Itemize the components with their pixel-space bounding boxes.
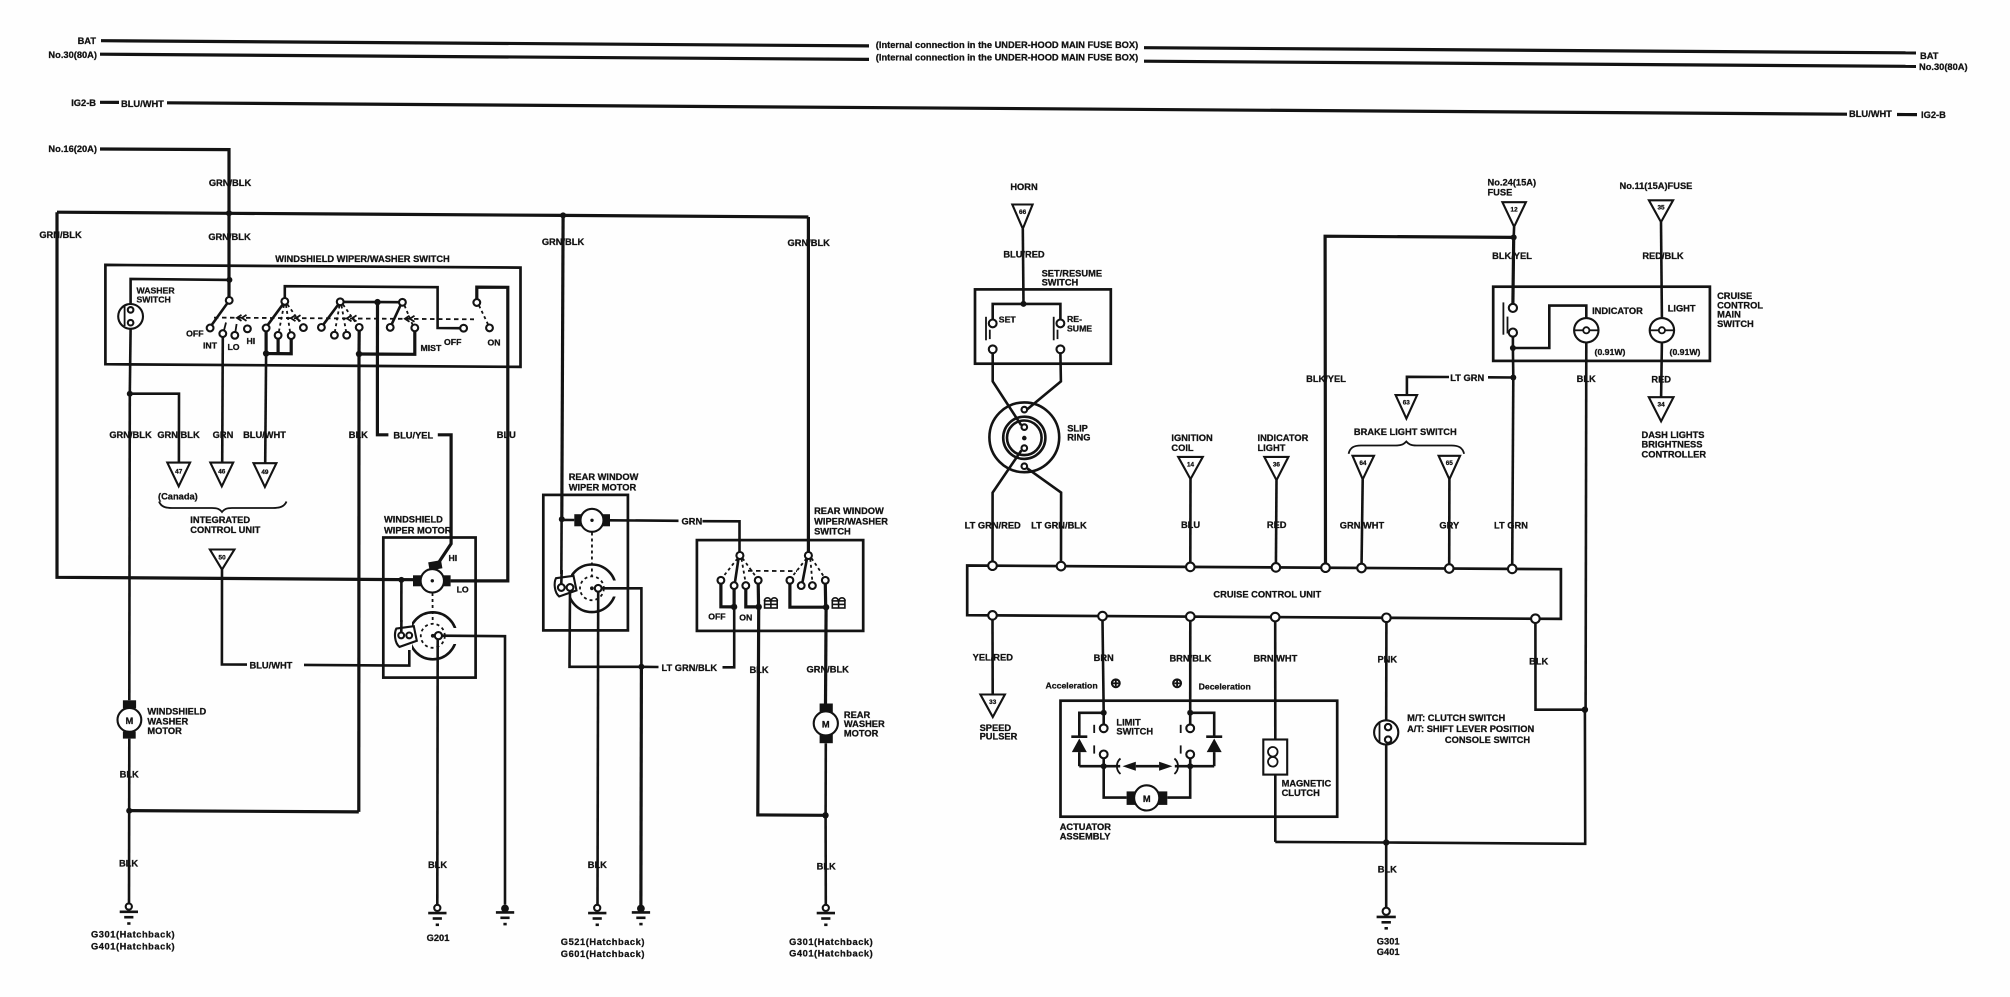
svg-text:RED: RED: [1267, 520, 1287, 530]
wire BLU/WHT to park contact: [304, 638, 409, 665]
node junction lower bus left: [1101, 763, 1107, 769]
SW4 dashed arm: [405, 306, 413, 325]
brace integrated control unit: [159, 502, 287, 513]
svg-text:M: M: [822, 720, 830, 730]
svg-text:GRN/BLK: GRN/BLK: [209, 178, 252, 188]
svg-text:Deceleration: Deceleration: [1199, 682, 1251, 692]
connector 33: [980, 695, 1005, 718]
svg-text:BLK: BLK: [119, 859, 138, 869]
wire clutch switch to BLK bus: [1385, 745, 1388, 843]
svg-text:LT GRN/BLK: LT GRN/BLK: [1031, 521, 1087, 531]
rear washer motor brush bottom: [820, 734, 833, 743]
limit switch R contact top: [1186, 724, 1194, 732]
node junction BLK bus: [356, 351, 362, 357]
terminal bottom 1: [988, 611, 997, 620]
wire GRN/BLK drop to rear motor: [562, 215, 563, 519]
SW4 contact: [387, 324, 394, 331]
svg-text:LIGHT: LIGHT: [1258, 443, 1286, 453]
wire rear washer motor ground lead: [824, 743, 827, 815]
main switch contact top: [1509, 304, 1517, 312]
svg-text:BAT: BAT: [1920, 51, 1939, 61]
wire BRN/WHT: [1274, 621, 1277, 739]
wire BLK bus to clutch: [1275, 841, 1386, 844]
SW3 contact 3: [343, 332, 350, 339]
SW3 contact 4: [356, 324, 363, 331]
connector 47: [167, 463, 190, 487]
svg-text:BLU/WHT: BLU/WHT: [121, 99, 164, 109]
rear motor shaft dashed: [591, 533, 593, 577]
limit switch L contact bottom: [1100, 751, 1108, 759]
svg-text:MOTOR: MOTOR: [147, 726, 182, 736]
svg-text:12: 12: [1511, 207, 1519, 214]
wire RED indicator light: [1275, 480, 1278, 567]
node junction BLU/WHT tap: [263, 350, 269, 356]
svg-text:INTEGRATED: INTEGRATED: [190, 515, 250, 525]
rear wiper SW arm: [735, 559, 739, 583]
svg-text:35: 35: [1657, 205, 1665, 212]
chevron arrows on gang line: [237, 315, 415, 322]
wire SET output: [993, 353, 1022, 425]
label BLU/YEL wire: [377, 366, 388, 435]
svg-text:BRN: BRN: [1094, 653, 1114, 663]
svg-text:BLU/WHT: BLU/WHT: [1849, 109, 1892, 119]
actuator motor brush right: [1156, 791, 1167, 805]
wire armature to G201: [436, 639, 439, 905]
SW2 contact 3: [288, 332, 295, 339]
svg-text:MOTOR: MOTOR: [844, 729, 879, 739]
svg-text:LO: LO: [227, 342, 239, 352]
svg-text:G201: G201: [427, 933, 450, 943]
icon polarity acceleration: [1112, 679, 1120, 687]
svg-text:DASH LIGHTS: DASH LIGHTS: [1642, 430, 1705, 440]
SET switch contact bottom: [989, 345, 997, 353]
wire GRN/BLK far-left drop: [57, 212, 413, 580]
svg-text:REAR WINDOW: REAR WINDOW: [814, 506, 884, 516]
svg-text:SWITCH: SWITCH: [137, 295, 171, 305]
svg-text:LT GRN/RED: LT GRN/RED: [965, 521, 1021, 531]
rear motor brush right: [602, 514, 610, 526]
actuator motor brush left: [1127, 791, 1138, 805]
wire No.16 fuse feed: [100, 149, 229, 213]
wire armature out right: [602, 588, 642, 667]
SW4 arm: [392, 305, 401, 325]
svg-text:RED: RED: [1651, 375, 1671, 385]
ground G301 right: [1377, 908, 1396, 929]
clutch switch plunger: [1379, 723, 1381, 743]
svg-text:GRN/BLK: GRN/BLK: [157, 430, 200, 440]
rear wiper SW dashed fan: [723, 558, 757, 582]
wire GRN/BLK drop to rear switch: [807, 217, 810, 552]
node junction BLK bus left: [126, 808, 132, 814]
svg-text:CRUISE CONTROL UNIT: CRUISE CONTROL UNIT: [1213, 590, 1321, 600]
svg-text:CONSOLE SWITCH: CONSOLE SWITCH: [1445, 735, 1531, 745]
limit switch L plunger dashes: [1093, 725, 1095, 754]
svg-text:BAT: BAT: [78, 36, 97, 46]
terminal bottom 5: [1382, 614, 1391, 623]
svg-text:HI: HI: [247, 336, 256, 346]
wire IG2-B tie right: [1897, 113, 1917, 116]
wire main switch to LT GRN node: [1512, 348, 1515, 378]
svg-text:IG2-B: IG2-B: [1921, 110, 1946, 120]
RESUME plunger: [1053, 317, 1055, 341]
wire branch to connector 47: [130, 394, 179, 463]
connector 34: [1649, 397, 1674, 421]
diode D2: [1206, 735, 1222, 738]
motor M windshield wiper: [421, 569, 444, 592]
wire ON loop rear wiper: [746, 589, 759, 607]
wire washer switch output: [129, 329, 132, 394]
svg-text:CONTROL UNIT: CONTROL UNIT: [190, 525, 260, 535]
svg-text:A/T: SHIFT LEVER POSITION: A/T: SHIFT LEVER POSITION: [1407, 724, 1534, 734]
svg-text:REAR WINDOW: REAR WINDOW: [569, 472, 639, 482]
ground G301 mid: [817, 905, 835, 925]
slip ring contact upper-mid: [1022, 424, 1028, 430]
svg-text:BLU/RED: BLU/RED: [1003, 250, 1045, 260]
terminal top 6: [1357, 564, 1366, 573]
wire BLU/YEL to HI brush: [438, 435, 451, 564]
icon polarity deceleration: [1173, 679, 1181, 687]
wire GRN/BLK drop to wiper switch: [227, 213, 230, 297]
node junction rear wiper OFF: [731, 604, 737, 610]
brace brake light switch: [1349, 442, 1465, 454]
svg-text:M: M: [126, 716, 134, 726]
svg-text:IGNITION: IGNITION: [1171, 433, 1213, 443]
rear washer contact 2: [798, 582, 805, 589]
wire IG2-B tie left: [100, 101, 119, 104]
SW3 contact 2: [331, 332, 338, 339]
wire PNK: [1385, 622, 1388, 720]
wire RESUME output: [1027, 353, 1061, 409]
node junction horn feed: [1021, 301, 1027, 307]
motor M rear wiper: [581, 509, 604, 532]
wire MIST link bus: [359, 331, 415, 354]
svg-text:BLK/YEL: BLK/YEL: [1492, 251, 1532, 261]
svg-text:BRAKE LIGHT SWITCH: BRAKE LIGHT SWITCH: [1354, 427, 1457, 437]
svg-text:WIPER/WASHER: WIPER/WASHER: [814, 517, 888, 527]
park contact A: [398, 633, 404, 639]
svg-text:66: 66: [1019, 209, 1027, 216]
clutch switch contact top: [1385, 724, 1391, 730]
contact MIST: [411, 325, 418, 332]
node junction LT GRN/BLK tee: [638, 664, 644, 670]
limit switch L contact top: [1100, 724, 1108, 732]
svg-text:RING: RING: [1067, 433, 1090, 443]
contact HI: [244, 325, 251, 332]
ground G201: [428, 905, 446, 925]
wire LT GRN/BLK to rear switch: [723, 610, 735, 667]
svg-text:M: M: [1143, 794, 1151, 804]
slip ring rings: [1003, 417, 1045, 459]
connector 36: [1264, 457, 1288, 480]
svg-text:BLK: BLK: [749, 665, 768, 675]
wire BRN: [1103, 620, 1104, 712]
connector 12 fuse: [1502, 202, 1526, 227]
park switch plate rear: [555, 576, 577, 597]
svg-text:Acceleration: Acceleration: [1046, 680, 1098, 690]
diode D1: [1071, 735, 1087, 738]
terminal top 4: [1272, 563, 1281, 572]
terminal top 5: [1321, 563, 1330, 572]
diode D4 right-pointing: [1159, 762, 1172, 771]
svg-text:No.30(80A): No.30(80A): [48, 50, 97, 60]
wire GRN/BLK drop to rear washer motor: [824, 607, 828, 703]
wire LT GRN/BLK lead: [641, 665, 658, 668]
terminal bottom 3: [1186, 612, 1195, 621]
motor shaft dashed: [432, 593, 434, 624]
wire BLK/YEL branch left: [1325, 236, 1514, 569]
limit switch R contact bottom: [1186, 751, 1194, 759]
wiper switch SW4 pivot: [399, 299, 406, 306]
svg-text:47: 47: [175, 469, 183, 476]
node junction GRN/BLK at switch: [226, 210, 232, 216]
terminal top 8: [1508, 565, 1517, 574]
svg-text:LIGHT: LIGHT: [1668, 304, 1696, 314]
wire BLK down from switch: [357, 354, 360, 812]
ON/OFF switch pivot: [473, 299, 480, 306]
terminal bottom 2: [1098, 612, 1107, 621]
armature rear wiper: [568, 565, 616, 613]
node junction fuse 12: [1511, 234, 1517, 240]
wiper switch SW1 pivot: [226, 297, 233, 304]
svg-text:BLU/WHT: BLU/WHT: [243, 430, 286, 440]
svg-text:33: 33: [989, 699, 997, 706]
wiper switch SW1 arm: [212, 303, 228, 325]
contact INT: [219, 330, 226, 337]
armature pickup: [435, 632, 442, 639]
armature commutator dashed: [421, 624, 445, 648]
box set/resume switch: [975, 289, 1111, 363]
svg-text:GRN/BLK: GRN/BLK: [807, 665, 850, 675]
terminal bottom 6: [1531, 614, 1540, 623]
wiper switch SW3 pivot: [337, 298, 344, 305]
svg-text:BLK: BLK: [817, 862, 836, 872]
node junction rear motor brush: [559, 516, 565, 522]
svg-text:GRN/WHT: GRN/WHT: [1340, 520, 1385, 530]
terminal top 2: [1057, 562, 1066, 571]
armature windshield wiper: [409, 612, 456, 659]
svg-text:INDICATOR: INDICATOR: [1258, 433, 1309, 443]
terminal bottom 4: [1271, 613, 1280, 622]
wire LT GRN drop to unit: [1512, 378, 1513, 569]
icon washer jet 2: [832, 598, 845, 608]
node junction BLK right: [1582, 707, 1588, 713]
svg-text:LT GRN: LT GRN: [1494, 520, 1528, 530]
svg-text:(Canada): (Canada): [158, 492, 198, 502]
armature pickup rear: [595, 585, 602, 592]
svg-text:65: 65: [1446, 460, 1454, 467]
wire slip ring to LT GRN/RED: [993, 450, 1022, 566]
node junction rear wiper ON: [756, 604, 762, 610]
svg-text:BLU: BLU: [497, 430, 516, 440]
washer switch contact top: [128, 307, 134, 313]
wire washer loop rear: [790, 584, 826, 608]
svg-text:G301: G301: [1377, 937, 1400, 947]
svg-text:34: 34: [1658, 402, 1666, 409]
main switch plunger: [1502, 302, 1504, 334]
svg-text:BLK: BLK: [588, 860, 607, 870]
wire BLK drop from HI contact: [357, 331, 360, 354]
svg-text:G521(Hatchback): G521(Hatchback): [561, 937, 645, 947]
connector 46: [210, 463, 233, 487]
svg-text:RED/BLK: RED/BLK: [1642, 251, 1684, 261]
svg-text:BLK/YEL: BLK/YEL: [1306, 374, 1346, 384]
wire BLK drop rear switch: [758, 607, 826, 815]
wire GRN drop to connector 46: [221, 337, 224, 463]
wire BLK/YEL to main switch: [1511, 237, 1515, 303]
node junction main switch out: [1510, 345, 1516, 351]
wire BLU/WHT drop to connector 49: [264, 354, 267, 464]
svg-text:CLUTCH: CLUTCH: [1282, 788, 1320, 798]
slip ring outer: [989, 402, 1059, 472]
connector 66 horn: [1012, 205, 1032, 229]
washer motor brush top: [123, 700, 136, 708]
svg-text:CRUISE: CRUISE: [1717, 291, 1752, 301]
wire clutch to BLK bus: [1274, 775, 1277, 842]
connector 49: [254, 463, 277, 487]
slip ring contact top: [1022, 407, 1028, 413]
connector 35 fuse: [1649, 200, 1673, 222]
wire light RED: [1660, 343, 1663, 398]
svg-text:G401(Hatchback): G401(Hatchback): [91, 942, 175, 952]
limit switch R plunger dashes: [1180, 725, 1182, 754]
svg-text:WINDSHIELD WIPER/WASHER SWITCH: WINDSHIELD WIPER/WASHER SWITCH: [275, 254, 450, 264]
wire BRN/BLK: [1189, 621, 1192, 713]
svg-text:ASSEMBLY: ASSEMBLY: [1060, 832, 1112, 842]
diode D3 left-pointing: [1117, 759, 1121, 774]
svg-text:BLK: BLK: [1529, 657, 1548, 667]
svg-text:No.11(15A)FUSE: No.11(15A)FUSE: [1620, 181, 1693, 191]
svg-text:(Internal connection in the UN: (Internal connection in the UNDER-HOOD M…: [876, 40, 1138, 50]
wire IG2-B bus: [167, 103, 1847, 114]
wire SW2 pivot feed: [285, 286, 460, 328]
wire right diode branch: [1190, 713, 1214, 737]
SET switch contact top: [989, 320, 997, 328]
svg-text:GRN: GRN: [682, 517, 703, 527]
washer switch contact bottom: [128, 320, 134, 326]
wire park drop redraw: [400, 620, 403, 632]
wire BLK from unit: [1535, 623, 1585, 710]
SET plunger: [985, 317, 987, 341]
wire GRN to rear switch: [703, 521, 740, 552]
node junction rear washer: [823, 604, 829, 610]
wiper switch SW2 pivot: [281, 298, 288, 305]
svg-text:46: 46: [218, 469, 226, 476]
rear washer contact 1: [787, 577, 794, 584]
icon washer jet 1: [764, 598, 777, 608]
wire SW3-SW4 pivot link: [344, 301, 399, 304]
wire washer motor ground lead: [128, 739, 131, 904]
wire slip ring to LT GRN/BLK: [1027, 468, 1061, 566]
node junction BRN/BLK bus: [1187, 710, 1193, 716]
ground case rear motor: [632, 905, 650, 925]
box cruise control main switch: [1493, 287, 1710, 361]
SW2 arm: [268, 304, 284, 325]
limit switch L links: [1102, 713, 1105, 725]
contact OFF: [207, 325, 214, 332]
wire rear feed redraw: [560, 570, 563, 584]
svg-text:(0.91W): (0.91W): [1670, 347, 1701, 357]
RESUME switch contact top: [1057, 320, 1065, 328]
svg-text:BRN/BLK: BRN/BLK: [1169, 654, 1211, 664]
SW3 arm: [323, 305, 339, 326]
wire LT GRN to junction: [1488, 376, 1514, 379]
park contact rear B: [567, 584, 574, 591]
svg-text:SWITCH: SWITCH: [1042, 278, 1079, 288]
svg-text:BLK: BLK: [1378, 865, 1397, 875]
svg-text:RE-: RE-: [1067, 314, 1082, 324]
wire junction to park contact: [560, 519, 563, 584]
contact OFF2: [460, 325, 467, 332]
rear wiper contact 4: [755, 577, 762, 584]
svg-text:IG2-B: IG2-B: [71, 98, 96, 108]
rear washer SW dashed fan: [792, 558, 825, 582]
connector 64: [1353, 456, 1375, 480]
svg-text:WINDSHIELD: WINDSHIELD: [147, 707, 206, 717]
node junction BLK ground: [1383, 839, 1389, 845]
svg-text:SWITCH: SWITCH: [1116, 726, 1153, 736]
svg-text:BLK: BLK: [120, 770, 139, 780]
rear washer motor brush top: [820, 704, 833, 713]
motor brush right: [443, 575, 450, 586]
svg-text:ON: ON: [487, 338, 500, 348]
wire BLU/YEL drop inside box: [376, 302, 379, 366]
slip ring contact bottom: [1022, 463, 1028, 469]
node junction left brush: [398, 577, 404, 583]
svg-text:14: 14: [1187, 461, 1195, 468]
svg-text:63: 63: [1403, 400, 1411, 407]
park switch plate: [395, 626, 417, 647]
svg-text:WIPER MOTOR: WIPER MOTOR: [569, 482, 637, 492]
svg-text:G601(Hatchback): G601(Hatchback): [561, 949, 645, 959]
svg-text:BLU: BLU: [1181, 520, 1200, 530]
svg-text:BRIGHTNESS: BRIGHTNESS: [1642, 440, 1703, 450]
svg-text:CONTROLLER: CONTROLLER: [1642, 449, 1707, 459]
ground case windshield: [496, 905, 514, 925]
connector 14: [1178, 457, 1203, 479]
wire BLK right drop: [1386, 710, 1585, 844]
wire BLU ignition: [1189, 479, 1192, 567]
svg-text:LO: LO: [457, 585, 469, 595]
rear wiper contact 3: [742, 582, 749, 589]
node junction BLU/YEL tap: [374, 299, 380, 305]
wire OFF loop rear wiper: [721, 584, 734, 607]
svg-text:WINDSHIELD: WINDSHIELD: [384, 515, 443, 525]
svg-text:MAIN: MAIN: [1717, 309, 1741, 319]
rear wiper contact 2: [731, 582, 738, 589]
wire GRY brake 65: [1448, 479, 1451, 568]
node junction lower bus right: [1187, 763, 1193, 769]
ground G301 left: [120, 904, 138, 924]
SW2 contact 1: [263, 325, 270, 332]
wire junction to left brush: [562, 519, 575, 522]
node junction LT GRN: [1510, 375, 1516, 381]
wire motor loop: [1104, 766, 1127, 797]
svg-text:No.16(20A): No.16(20A): [48, 144, 97, 154]
svg-text:LT GRN/BLK: LT GRN/BLK: [662, 663, 718, 673]
wire left diode branch: [1079, 713, 1103, 737]
wire left diode to bus: [1078, 752, 1081, 766]
rear wiper SW pivot: [736, 552, 743, 559]
svg-text:BLU/YEL: BLU/YEL: [393, 430, 433, 440]
tick INT: [224, 323, 226, 331]
main switch contact bottom: [1509, 329, 1517, 337]
SW2 contact 2: [275, 332, 282, 339]
limit switch R links: [1189, 713, 1192, 725]
wire LT GRN from 63: [1407, 377, 1449, 395]
motor brush left: [413, 575, 421, 586]
node junction rear BLK: [822, 812, 828, 818]
rear washer SW arm: [803, 559, 808, 583]
